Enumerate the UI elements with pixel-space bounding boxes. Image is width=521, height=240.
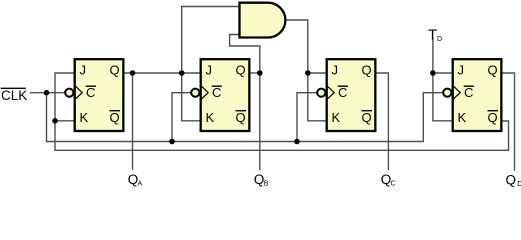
svg-text:K: K <box>80 110 89 125</box>
svg-text:Q: Q <box>236 110 246 125</box>
svg-text:D: D <box>437 36 442 43</box>
svg-text:Q: Q <box>110 110 120 125</box>
svg-text:Q: Q <box>362 110 372 125</box>
svg-text:D: D <box>517 181 521 188</box>
svg-text:K: K <box>332 110 341 125</box>
svg-text:Q: Q <box>110 63 120 78</box>
svg-text:K: K <box>458 110 467 125</box>
svg-text:J: J <box>332 63 339 78</box>
svg-text:C: C <box>464 85 473 100</box>
svg-text:J: J <box>206 63 213 78</box>
svg-text:K: K <box>206 110 215 125</box>
svg-text:CLK: CLK <box>1 88 27 103</box>
svg-text:J: J <box>458 63 465 78</box>
svg-text:C: C <box>338 85 347 100</box>
svg-text:T: T <box>428 26 437 43</box>
svg-text:Q: Q <box>362 63 372 78</box>
svg-text:Q: Q <box>506 173 517 188</box>
svg-text:C: C <box>391 181 396 188</box>
svg-text:J: J <box>80 63 87 78</box>
svg-text:C: C <box>212 85 221 100</box>
svg-text:Q: Q <box>488 110 498 125</box>
svg-text:B: B <box>264 181 269 188</box>
svg-text:A: A <box>138 181 143 188</box>
svg-text:C: C <box>86 85 95 100</box>
svg-text:Q: Q <box>488 63 498 78</box>
svg-text:Q: Q <box>236 63 246 78</box>
